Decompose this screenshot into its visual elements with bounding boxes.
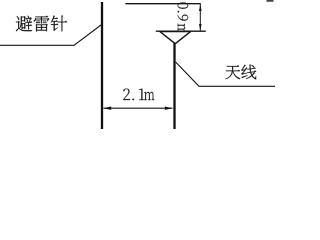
short dash top-right xyxy=(267,0,274,2)
label 避雷针 (lightning rod) xyxy=(16,16,67,32)
arrowhead right (2.1m) xyxy=(165,107,173,110)
arrowhead left (2.1m) xyxy=(103,107,111,110)
antenna mast (right pole) xyxy=(173,43,175,129)
dimension text m xyxy=(144,92,154,100)
antenna top line xyxy=(156,30,206,32)
dimension text 2. xyxy=(123,89,134,101)
arrowhead up (0.9m top) xyxy=(199,4,202,11)
wire leader from mast to 天线 label xyxy=(176,62,275,86)
lightning rod mast (left pole) xyxy=(101,2,103,129)
label 天线 (antenna) xyxy=(225,65,256,80)
arrowhead down (0.9m bottom) xyxy=(199,24,202,31)
top reference line (rod tip level) xyxy=(125,3,200,5)
dimension text 1 xyxy=(139,89,144,100)
wire leader from 避雷针 label to rod xyxy=(0,25,101,45)
dimension 0.9m extension line (vertical) xyxy=(199,4,201,31)
antenna symbol (triangle) xyxy=(160,32,191,44)
dimension text 0.9m (rotated 90deg cw) xyxy=(178,3,189,35)
dimension 2.1m line xyxy=(104,107,173,109)
